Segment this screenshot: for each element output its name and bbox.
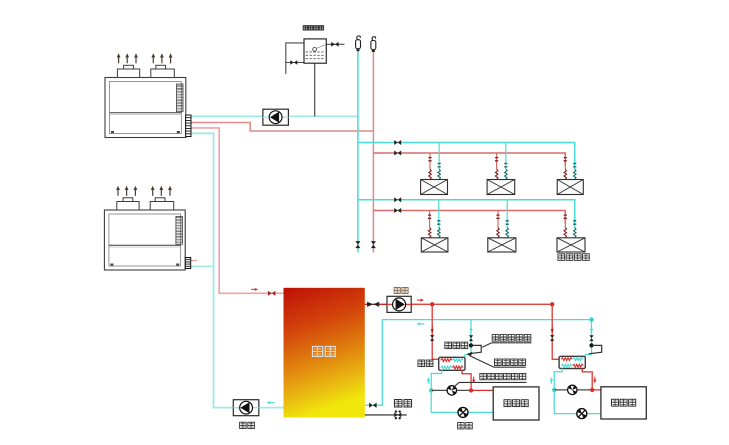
float ball inside expansion tank bbox=[313, 48, 317, 52]
label plate heat exchanger (ban huan) bbox=[418, 360, 425, 367]
label temperature sensor (wen du chuan gan qi) with leader bbox=[492, 335, 499, 342]
flow arrow cyan pointing left near P3 bbox=[267, 401, 270, 404]
valve on red drop bbox=[430, 335, 434, 341]
wire expansion tank right fill pipe bbox=[326, 43, 344, 45]
plate heat exchanger bbox=[559, 356, 585, 368]
thermowell pocket fitting on cyan drop bbox=[469, 343, 473, 347]
label temperature probe (wen du tan tou) with leader bbox=[494, 359, 501, 366]
pump P3 on tank return line bbox=[233, 400, 258, 416]
valve on red header row 2 bbox=[394, 208, 401, 213]
wire red drop to fan coil bbox=[564, 211, 566, 228]
label electroplating tank (dian du cao) bbox=[504, 400, 511, 407]
wire cyan riser (vent to drain) bbox=[357, 51, 359, 253]
wire cyan drop from return header to heat exchanger bbox=[465, 320, 471, 358]
electroplating tank box bbox=[601, 387, 646, 419]
wire cyan return loops to tank bbox=[365, 320, 592, 406]
flow arrow on cyan drop bbox=[469, 327, 472, 331]
flow arrow up on cyan bbox=[550, 377, 553, 381]
circulation pump (wedge) bbox=[568, 385, 577, 394]
circulation pump (wedge) bbox=[447, 386, 456, 395]
fan coil unit box bbox=[557, 238, 585, 252]
wire cyan drop to fan coil bbox=[506, 200, 508, 228]
label pump under loop1 (shui beng) bbox=[458, 423, 465, 429]
flow arrow up on cyan bbox=[427, 377, 430, 381]
pump P1 on suction line bbox=[263, 109, 289, 125]
bottom pump (X style) bbox=[458, 407, 468, 417]
wire cyan pump suction line unit1 to riser bbox=[192, 115, 358, 117]
junction dot red bbox=[469, 388, 473, 392]
drain valve on red riser bbox=[371, 241, 376, 248]
label on tank: shui xiang bbox=[312, 347, 322, 357]
valve on red line into tank bbox=[268, 291, 276, 296]
junction dot red header bbox=[430, 302, 434, 306]
pipe connector unit 2 bbox=[185, 258, 190, 269]
pipe connector unit 1 bbox=[186, 115, 191, 137]
fan coil unit box bbox=[487, 180, 515, 195]
wire cyan header row 1 bbox=[358, 143, 575, 167]
wire cyan out of heat exchanger down to junction bbox=[554, 369, 562, 390]
flow arrow cyan return pointing left bbox=[417, 322, 420, 325]
flow arrow on cyan drop bbox=[590, 327, 593, 331]
storage water tank (shui xiang) bbox=[284, 288, 365, 418]
flow arrow down red drop bbox=[431, 329, 434, 333]
pump P2 supply pump bbox=[387, 296, 411, 312]
valve on cyan header row 2 bbox=[394, 197, 401, 202]
junction dot cyan bbox=[429, 388, 433, 392]
fan coil unit box bbox=[421, 180, 448, 195]
flow arrow down on red bbox=[472, 380, 475, 384]
wire cyan drop to fan coil bbox=[438, 200, 440, 228]
heat pump unit 2 bbox=[104, 210, 185, 270]
junction dot red bbox=[590, 388, 594, 392]
valve on cyan header row 1 bbox=[394, 140, 401, 145]
wire cyan bottom return from plating tank bbox=[554, 390, 601, 414]
wire pump line between junctions bbox=[554, 389, 592, 391]
check valve tank outlet bbox=[367, 302, 379, 307]
wire red header row 1 bbox=[373, 153, 565, 166]
wire cyan drop to fan coil bbox=[574, 143, 576, 170]
wire cyan header row 2 bbox=[358, 200, 575, 224]
wire red supply unit1 to fan-coil header bbox=[192, 123, 374, 132]
wire cyan return riser tank to units bbox=[192, 133, 284, 407]
wire red drop to fan coil bbox=[497, 211, 499, 228]
automatic air vent on red riser bbox=[371, 41, 376, 50]
expansion tank vessel bbox=[304, 39, 326, 63]
valve on expansion tank lower left pipe bbox=[290, 60, 297, 65]
wire expansion tank drop to suction line bbox=[314, 63, 316, 116]
bottom pump (X style) bbox=[577, 409, 587, 419]
wire red drop to fan coil bbox=[429, 211, 431, 228]
automatic air vent on cyan riser bbox=[356, 40, 361, 49]
valve on cyan drop bbox=[469, 335, 473, 341]
wire red riser (vent to drain) bbox=[372, 51, 374, 253]
wire red drop to fan coil bbox=[496, 153, 498, 169]
wire red junction to plating tank bbox=[471, 389, 493, 391]
wire cyan out of heat exchanger down to junction bbox=[431, 370, 442, 390]
label fan coil units (feng ji pan guan) bbox=[558, 254, 565, 261]
flow arrow on red line into tank bbox=[255, 288, 258, 291]
valve on red drop bbox=[550, 335, 554, 341]
wire red down-comer unit1 to storage tank bbox=[192, 128, 284, 293]
electroplating tank box bbox=[493, 387, 539, 420]
flow arrow down red drop bbox=[551, 329, 554, 333]
wire red junction to plating tank bbox=[592, 389, 601, 391]
plate heat exchanger bbox=[439, 357, 465, 370]
wire cyan drop to fan coil bbox=[505, 143, 507, 170]
wire cyan drop to fan coil bbox=[574, 200, 576, 228]
junction dot red header bbox=[550, 302, 554, 306]
junction dot cyan bbox=[552, 388, 556, 392]
label pump P3 (shui beng) bbox=[240, 422, 247, 428]
label electroplating tank (dian du cao) bbox=[611, 399, 618, 406]
junction dot cyan return header end bbox=[589, 317, 593, 321]
label solution processing equipment (rong ye chu li she bei) with leader bbox=[480, 373, 487, 379]
fan coil unit box bbox=[488, 238, 516, 252]
wire red supply tank to loops bbox=[365, 303, 387, 305]
wire red drop from supply header into heat exchanger bbox=[432, 304, 439, 359]
wire red drop to fan coil bbox=[429, 153, 431, 169]
drain valve on cyan riser bbox=[355, 241, 360, 248]
valve on red header row 1 bbox=[394, 151, 401, 156]
valve on expansion tank fill pipe bbox=[331, 42, 338, 47]
wire expansion tank left overflow loop bbox=[286, 43, 304, 74]
water level dashes inside expansion tank bbox=[306, 52, 324, 59]
fan coil unit box bbox=[421, 238, 448, 252]
fan coil unit box bbox=[557, 180, 583, 195]
wire pump line between junctions bbox=[431, 389, 471, 391]
wire red header row 2 bbox=[373, 211, 565, 225]
heat pump unit 1 bbox=[105, 78, 186, 138]
wire red stub unit2 bbox=[191, 260, 197, 262]
valve on cyan line into tank bottom bbox=[369, 403, 377, 408]
thermowell pocket fitting on cyan drop bbox=[589, 343, 593, 347]
valve on cyan drop bbox=[589, 335, 593, 341]
label expansion tank (peng zhang shui xiang) bbox=[303, 26, 308, 30]
label pump P2 (shui beng) bbox=[394, 287, 400, 293]
wire cyan bottom return from plating tank bbox=[431, 390, 493, 412]
wire red out of heat exchanger down to junction bbox=[582, 369, 592, 390]
flow arrow down on red bbox=[593, 380, 596, 384]
wire cyan drop from return header to heat exchanger bbox=[585, 320, 591, 357]
wire cyan drop to fan coil bbox=[438, 143, 440, 170]
wire red out of heat exchanger down to junction bbox=[462, 370, 471, 390]
wire red drop to fan coil bbox=[564, 153, 566, 169]
wire red drop from supply header into heat exchanger bbox=[552, 304, 559, 359]
wire cyan branch to unit2 bbox=[191, 265, 214, 267]
label cold water (leng shui) bbox=[394, 400, 402, 407]
motorised valve on cold water pipe bbox=[394, 412, 401, 417]
flow arrow red after P2 bbox=[421, 299, 424, 302]
cold water make-up pipe bbox=[365, 414, 407, 416]
label mechanical valve (ji xie fa) bbox=[445, 342, 452, 349]
